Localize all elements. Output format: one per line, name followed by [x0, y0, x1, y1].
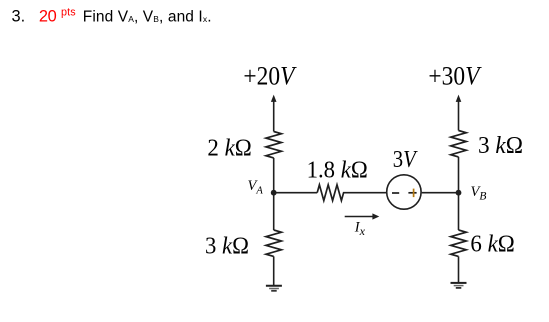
resistor R1 2k ohm — [266, 132, 281, 158]
resistor R5 6k ohm — [451, 230, 466, 256]
svg-text:+20V: +20V — [243, 61, 296, 91]
wire R2 to ground — [273, 256, 275, 285]
wire R4 to node B — [458, 157, 460, 230]
wire R3 to source V1 — [343, 192, 386, 194]
resistor R4 3k ohm — [451, 131, 466, 157]
node A dot — [271, 190, 277, 196]
svg-text:3 kΩ: 3 kΩ — [205, 233, 249, 260]
svg-text:1.8 kΩ: 1.8 kΩ — [307, 156, 368, 183]
svg-text:VA: VA — [248, 178, 264, 196]
ground right — [451, 283, 467, 288]
wire V1 to node B — [422, 192, 459, 194]
node B dot — [456, 190, 462, 196]
supply arrow +20V — [271, 95, 277, 132]
current arrow Ix — [345, 213, 380, 219]
svg-text:+30V: +30V — [428, 61, 481, 91]
resistor R3 1.8k ohm horizontal — [317, 185, 343, 201]
wire R5 to ground — [458, 256, 460, 283]
svg-text:3 kΩ: 3 kΩ — [478, 132, 523, 159]
supply arrow +30V — [456, 95, 462, 131]
svg-text:2 kΩ: 2 kΩ — [207, 135, 251, 162]
svg-text:20: 20 — [39, 8, 57, 26]
svg-text:3V: 3V — [393, 146, 419, 173]
V1 minus sign — [392, 192, 399, 194]
resistor R2 3k ohm — [266, 230, 281, 256]
svg-text:VB: VB — [471, 184, 487, 202]
svg-text:3.: 3. — [12, 8, 26, 26]
svg-text:6 kΩ: 6 kΩ — [470, 231, 514, 258]
V1 plus sign — [408, 189, 416, 198]
svg-text:pts: pts — [61, 6, 76, 18]
wire R1 to node A — [273, 158, 275, 230]
voltage source V1 circle — [387, 175, 421, 209]
svg-text:Ix: Ix — [354, 220, 366, 238]
ground left — [266, 286, 282, 291]
svg-text:Find VA, VB, and Ix.: Find VA, VB, and Ix. — [83, 9, 212, 26]
wire node A to R3 — [274, 192, 318, 194]
